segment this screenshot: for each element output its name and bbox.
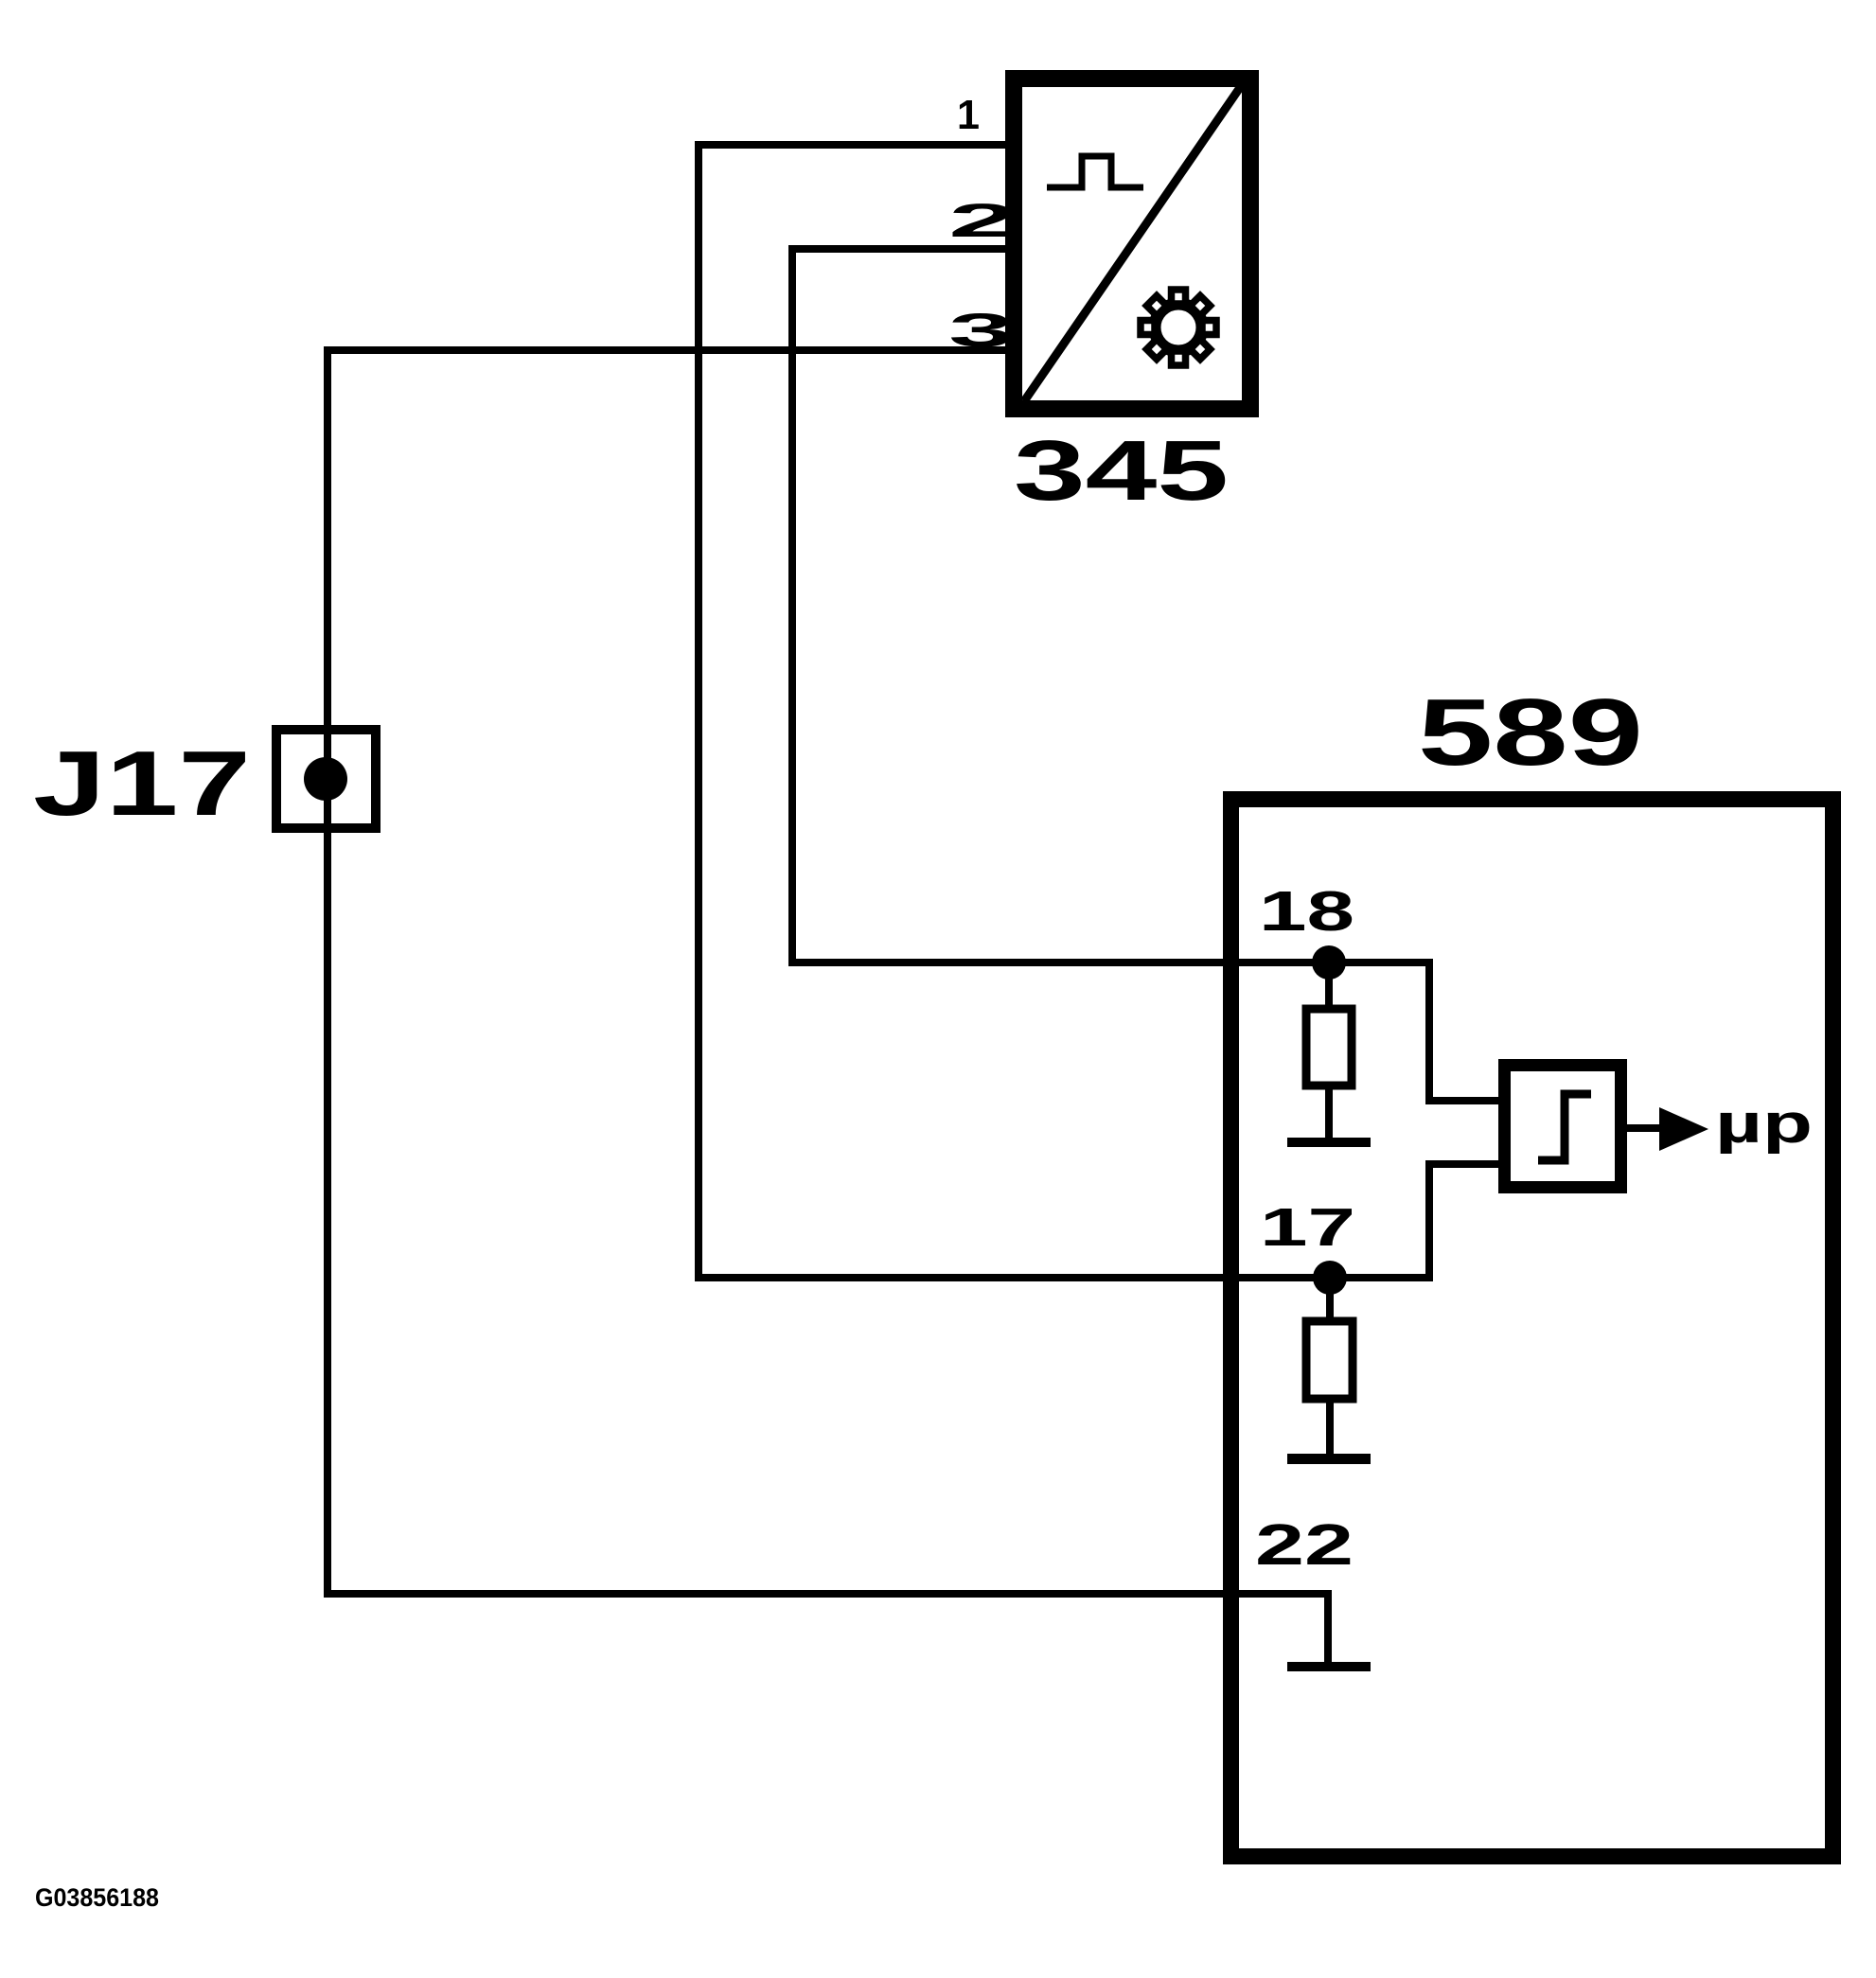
resistor R2 [1306, 1321, 1353, 1399]
wire resistor R1 to ground [1325, 1086, 1333, 1141]
gear symbol in box 345 [1141, 290, 1216, 365]
output arrow head [1659, 1107, 1708, 1151]
svg-text:22: 22 [1255, 1512, 1354, 1577]
ground below R1 [1287, 1138, 1371, 1147]
resistor R1 [1306, 1009, 1352, 1086]
splice junction dot J17 [304, 757, 347, 801]
wire node18 to resistor R1 [1325, 963, 1333, 1009]
ground at pin 22 [1287, 1662, 1371, 1671]
svg-text:589: 589 [1418, 680, 1643, 786]
ground below R2 [1287, 1454, 1371, 1464]
control module box 589 [1231, 800, 1833, 1857]
comparator U1 (schmitt trigger) [1505, 1066, 1621, 1188]
splice box J17 [276, 730, 376, 828]
svg-text:2: 2 [948, 194, 1017, 247]
hysteresis symbol in comparator [1538, 1094, 1591, 1160]
svg-text:3: 3 [948, 304, 1014, 357]
output wire of comparator [1627, 1124, 1663, 1132]
wire pin1-345 to pin17-589 [699, 145, 1498, 1278]
junction node 18 [1312, 945, 1346, 980]
junction node 17 [1313, 1261, 1347, 1295]
wire node17 to resistor R2 [1326, 1278, 1334, 1321]
wire pin3-345 through J17 to pin22-589 [327, 350, 1328, 1662]
svg-text:345: 345 [1014, 424, 1229, 519]
svg-text:18: 18 [1259, 880, 1354, 943]
svg-text:µp: µp [1715, 1093, 1813, 1155]
wire resistor R2 to ground [1326, 1399, 1334, 1457]
svg-text:1: 1 [957, 92, 980, 138]
svg-text:J17: J17 [33, 732, 251, 835]
diagonal in box 345 [1024, 86, 1241, 401]
wire pin2-345 to pin18-589 [792, 249, 1498, 1101]
svg-text:G03856188: G03856188 [35, 1883, 159, 1912]
pulse symbol in box 345 [1047, 156, 1143, 187]
svg-text:17: 17 [1260, 1197, 1355, 1258]
sensor box 345 [1014, 79, 1250, 409]
